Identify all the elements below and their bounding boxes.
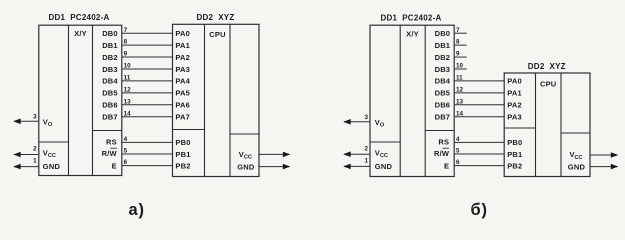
wire DB0 (a) from DD1 to DD2 bbox=[122, 32, 173, 34]
svg-text:DB0: DB0 bbox=[435, 29, 451, 38]
wire R/W (a) bbox=[122, 153, 173, 155]
svg-text:GND: GND bbox=[568, 163, 586, 172]
wire DB4 (b) from DD1 to DD2 bbox=[454, 80, 504, 82]
svg-text:DD2 XYZ: DD2 XYZ bbox=[528, 62, 566, 71]
svg-text:PA3: PA3 bbox=[175, 65, 190, 74]
svg-text:VCC: VCC bbox=[239, 150, 252, 161]
svg-text:DB2: DB2 bbox=[102, 53, 118, 62]
svg-text:8: 8 bbox=[456, 39, 460, 46]
svg-text:DB1: DB1 bbox=[435, 41, 451, 50]
wire V_CC (b) right with arrow bbox=[590, 154, 618, 156]
svg-text:CPU: CPU bbox=[540, 80, 556, 89]
wire GND (b) with arrow bbox=[344, 165, 370, 167]
svg-text:DB6: DB6 bbox=[435, 101, 451, 110]
DD1(b) internal vertical divider 1 bbox=[399, 25, 401, 176]
DD2(b) divider between PA and PB sections bbox=[504, 127, 535, 129]
wire V_CC (b) with arrow bbox=[344, 153, 370, 155]
svg-text:E: E bbox=[112, 161, 117, 170]
svg-text:RS: RS bbox=[106, 137, 117, 146]
wire DB1 (a) from DD1 to DD2 bbox=[122, 44, 173, 46]
wire V_O (a) with arrow bbox=[14, 120, 39, 122]
svg-text:DD2 XYZ: DD2 XYZ bbox=[197, 13, 235, 22]
svg-text:VO: VO bbox=[375, 118, 385, 129]
wire DB7 (b) from DD1 to DD2 bbox=[454, 116, 504, 118]
svg-text:12: 12 bbox=[456, 86, 464, 93]
DD2(a) internal vertical divider 2 bbox=[229, 24, 231, 176]
unconnected stub wire DB2 (b) bbox=[454, 56, 467, 58]
svg-text:13: 13 bbox=[456, 98, 464, 105]
svg-text:PA7: PA7 bbox=[175, 113, 190, 122]
svg-text:2: 2 bbox=[33, 146, 37, 153]
svg-text:4: 4 bbox=[456, 136, 460, 143]
svg-text:PA3: PA3 bbox=[507, 113, 522, 122]
svg-text:7: 7 bbox=[456, 27, 460, 34]
IC DD2 (XYZ CPU), variant a: body outline bbox=[173, 24, 260, 176]
wire DB7 (a) from DD1 to DD2 bbox=[122, 116, 173, 118]
wire GND (a) right with arrow bbox=[259, 166, 290, 168]
DD2(a) divider above supply section bbox=[230, 133, 259, 135]
svg-text:3: 3 bbox=[364, 114, 368, 121]
wire DB6 (b) from DD1 to DD2 bbox=[454, 104, 504, 106]
svg-text:14: 14 bbox=[456, 110, 464, 117]
svg-text:PA0: PA0 bbox=[507, 77, 522, 86]
wire DB3 (a) from DD1 to DD2 bbox=[122, 68, 173, 70]
DD1(a) internal vertical divider 2 bbox=[92, 25, 94, 175]
svg-text:9: 9 bbox=[124, 51, 128, 58]
svg-text:DB4: DB4 bbox=[435, 77, 451, 86]
wire GND (b) right with arrow bbox=[590, 166, 618, 168]
svg-text:GND: GND bbox=[375, 162, 393, 171]
svg-text:GND: GND bbox=[43, 162, 61, 171]
DD1(a) divider between data-bus and control sections bbox=[93, 130, 122, 132]
svg-text:DB3: DB3 bbox=[102, 65, 118, 74]
svg-text:DB1: DB1 bbox=[102, 41, 118, 50]
svg-text:X/Y: X/Y bbox=[74, 29, 87, 38]
svg-text:PB2: PB2 bbox=[507, 161, 522, 170]
IC DD2 (XYZ CPU), variant b: body outline bbox=[504, 73, 590, 177]
svg-text:E: E bbox=[444, 161, 449, 170]
DD1(b) divider between V_O and V_CC sections bbox=[370, 141, 400, 143]
svg-text:3: 3 bbox=[33, 114, 37, 121]
svg-text:RS: RS bbox=[438, 137, 449, 146]
svg-text:а): а) bbox=[129, 201, 145, 219]
unconnected stub wire DB0 (b) bbox=[454, 32, 467, 34]
svg-text:11: 11 bbox=[456, 75, 463, 82]
svg-text:R/W: R/W bbox=[102, 149, 118, 158]
svg-text:PB0: PB0 bbox=[175, 138, 190, 147]
wire GND (a) with arrow bbox=[14, 166, 39, 168]
svg-text:DB4: DB4 bbox=[102, 77, 118, 86]
DD2(b) internal vertical divider 2 bbox=[560, 73, 562, 177]
svg-text:X/Y: X/Y bbox=[406, 30, 419, 39]
svg-text:DD1 PC2402-A: DD1 PC2402-A bbox=[49, 13, 110, 22]
wire E (a) bbox=[122, 165, 173, 167]
svg-text:DB5: DB5 bbox=[102, 89, 118, 98]
svg-text:PA1: PA1 bbox=[175, 41, 190, 50]
svg-text:4: 4 bbox=[124, 136, 128, 143]
svg-text:12: 12 bbox=[124, 86, 132, 93]
svg-text:10: 10 bbox=[456, 63, 464, 70]
DD1(a) internal vertical divider 1 bbox=[68, 25, 70, 175]
wire E (b) bbox=[454, 165, 504, 167]
svg-text:1: 1 bbox=[33, 158, 37, 165]
DD2(a) internal vertical divider 1 bbox=[204, 24, 206, 176]
DD2(b) divider above supply section bbox=[561, 132, 590, 134]
svg-text:PA2: PA2 bbox=[175, 53, 190, 62]
unconnected stub wire DB1 (b) bbox=[454, 44, 467, 46]
svg-text:8: 8 bbox=[124, 39, 128, 46]
svg-text:PA5: PA5 bbox=[175, 89, 190, 98]
IC DD1 (PC2402-A), variant b: body outline bbox=[370, 25, 454, 176]
svg-text:PA6: PA6 bbox=[175, 101, 190, 110]
DD1(b) divider between data-bus and control sections bbox=[425, 130, 454, 132]
wire DB5 (b) from DD1 to DD2 bbox=[454, 92, 504, 94]
svg-text:VO: VO bbox=[43, 118, 53, 129]
svg-text:DB5: DB5 bbox=[435, 89, 451, 98]
svg-text:PB1: PB1 bbox=[175, 150, 190, 159]
wire DB5 (a) from DD1 to DD2 bbox=[122, 92, 173, 94]
wire V_CC (a) with arrow bbox=[14, 154, 39, 156]
IC U DD1 (PC2402-A), variant a: body outline bbox=[39, 25, 122, 175]
svg-text:1: 1 bbox=[364, 157, 368, 164]
svg-text:GND: GND bbox=[237, 162, 255, 171]
svg-text:DB7: DB7 bbox=[102, 113, 118, 122]
svg-text:DB3: DB3 bbox=[435, 65, 451, 74]
svg-text:DB6: DB6 bbox=[102, 101, 118, 110]
DD2(a) divider between PA and PB sections bbox=[173, 129, 205, 131]
wire R/W (b) bbox=[454, 153, 504, 155]
wire RS (b) bbox=[454, 141, 504, 143]
svg-text:PB0: PB0 bbox=[507, 138, 522, 147]
svg-text:2: 2 bbox=[364, 145, 368, 152]
DD1(b) internal vertical divider 2 bbox=[424, 25, 426, 176]
svg-text:14: 14 bbox=[124, 110, 132, 117]
svg-text:VCC: VCC bbox=[43, 149, 56, 160]
svg-text:13: 13 bbox=[124, 98, 132, 105]
svg-text:DD1 PC2402-A: DD1 PC2402-A bbox=[381, 14, 442, 23]
wire RS (a) bbox=[122, 141, 173, 143]
svg-text:PB2: PB2 bbox=[175, 161, 190, 170]
svg-text:PA1: PA1 bbox=[507, 89, 522, 98]
svg-text:PA4: PA4 bbox=[175, 77, 190, 86]
wire DB4 (a) from DD1 to DD2 bbox=[122, 80, 173, 82]
svg-text:PB1: PB1 bbox=[507, 150, 522, 159]
svg-text:5: 5 bbox=[124, 148, 128, 155]
wire DB6 (a) from DD1 to DD2 bbox=[122, 104, 173, 106]
svg-text:6: 6 bbox=[456, 159, 460, 166]
svg-text:DB7: DB7 bbox=[435, 113, 451, 122]
svg-text:11: 11 bbox=[124, 75, 131, 82]
svg-text:б): б) bbox=[471, 201, 488, 219]
wire V_O (b) with arrow bbox=[344, 121, 370, 123]
unconnected stub wire DB3 (b) bbox=[454, 68, 467, 70]
DD1(a) divider between V_O and V_CC sections bbox=[39, 141, 69, 143]
wire DB2 (a) from DD1 to DD2 bbox=[122, 56, 173, 58]
svg-text:10: 10 bbox=[124, 63, 132, 70]
svg-text:VCC: VCC bbox=[570, 150, 583, 161]
svg-text:R/W: R/W bbox=[434, 149, 450, 158]
svg-text:CPU: CPU bbox=[209, 30, 225, 39]
svg-text:VCC: VCC bbox=[375, 149, 388, 160]
svg-text:7: 7 bbox=[124, 27, 128, 34]
DD2(b) internal vertical divider 1 bbox=[535, 73, 537, 177]
wire V_CC (a) right with arrow bbox=[259, 153, 290, 155]
svg-text:DB0: DB0 bbox=[102, 29, 118, 38]
svg-text:9: 9 bbox=[456, 51, 460, 58]
svg-text:6: 6 bbox=[124, 159, 128, 166]
svg-text:PA0: PA0 bbox=[175, 29, 190, 38]
svg-text:5: 5 bbox=[456, 148, 460, 155]
svg-text:DB2: DB2 bbox=[435, 53, 451, 62]
svg-text:PA2: PA2 bbox=[507, 101, 522, 110]
